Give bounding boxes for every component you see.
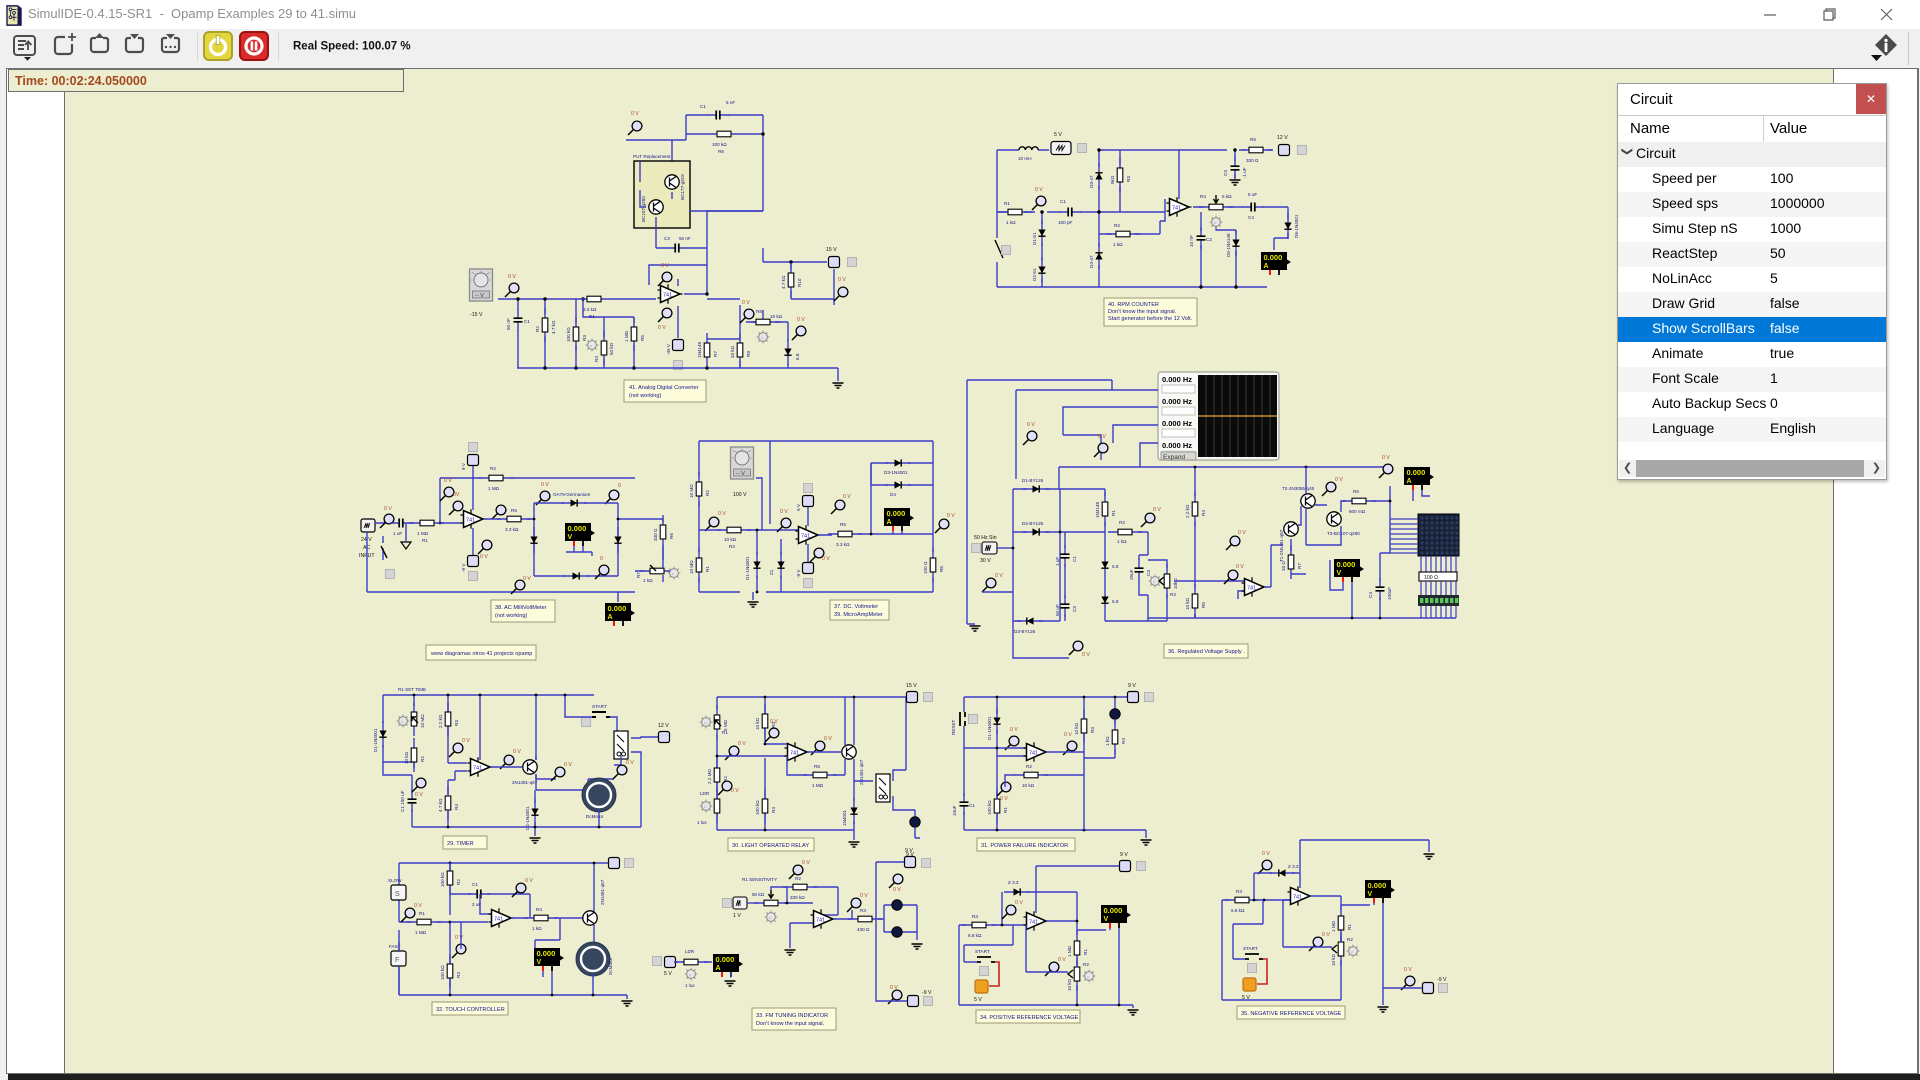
junction [439,522,442,525]
svg-text:10 nF: 10 nF [1189,235,1194,247]
svg-text:R1: R1 [722,730,728,735]
resistor R4 [1192,492,1198,526]
op-amp U1 741 [796,525,821,545]
svg-text:12 V: 12 V [1277,135,1288,141]
wire right section [635,549,670,582]
note box 33 [752,1008,836,1030]
voltmeter display [1101,905,1131,928]
svg-text:39. MicroAmpMeter: 39. MicroAmpMeter [834,612,883,618]
svg-text:0 V: 0 V [1027,422,1035,428]
svg-text:1N4001: 1N4001 [842,809,847,826]
resistor R2 [411,738,417,772]
svg-text:R3: R3 [582,335,587,341]
svg-text:R5: R5 [840,522,846,527]
wire transistor net [1291,467,1346,574]
svg-text:5 V: 5 V [974,997,982,1003]
terminal 15V [907,692,918,703]
svg-text:3.3 kΩ: 3.3 kΩ [583,307,597,312]
svg-text:0 V: 0 V [658,325,666,331]
svg-text:R4: R4 [536,907,542,912]
icon: save as [162,34,179,52]
probe R3 [452,944,466,958]
diode 1N4001 [850,798,857,824]
svg-text:R2: R2 [535,326,540,332]
svg-text:R2: R2 [795,876,801,881]
svg-text:5 V: 5 V [664,971,672,977]
wire output [818,463,933,535]
zener Z5.8 upper [1101,552,1108,578]
svg-text:0 V: 0 V [525,878,533,884]
ground [752,592,754,600]
resistor R2 [542,308,548,342]
wire left loop [997,150,1288,287]
zener Z3.3 [1004,888,1030,895]
junction [1076,920,1079,923]
svg-text:0 V: 0 V [508,274,516,280]
svg-text:1 uF: 1 uF [1055,557,1060,566]
svg-text:T3-BC107-q280: T3-BC107-q280 [1327,531,1360,536]
svg-text:Expand: Expand [1163,454,1185,461]
svg-text:R1: R1 [422,538,428,543]
probe out [1063,741,1077,755]
toolbar [0,29,1920,68]
SLOW touch box [391,885,406,900]
svg-text:S: S [395,891,400,898]
gray square [1078,144,1087,153]
svg-text:100 Ω: 100 Ω [923,561,928,574]
ground C3 [1230,180,1241,185]
junction [996,747,999,750]
capacitor C3 25uF [1135,559,1144,581]
zener Z5.8 lower [1101,587,1108,613]
svg-text:100 kΩ: 100 kΩ [566,327,571,342]
svg-text:R4: R4 [1201,510,1206,516]
svg-text:10 kΩ: 10 kΩ [1022,783,1035,788]
wire outer loop [699,441,933,592]
close button [1871,0,1901,29]
svg-text:3.3 kΩ: 3.3 kΩ [836,542,850,547]
wire emitter [535,774,588,803]
svg-text:50 nF: 50 nF [506,318,511,330]
ground [970,626,981,631]
svg-text:100 kΩ: 100 kΩ [712,142,727,147]
svg-text:1N4148: 1N4148 [697,341,702,358]
bottom bus [1148,614,1456,618]
potentiometer R4 [601,331,607,365]
source 5V red wire [989,962,999,986]
transistor Q2 BC107 [649,200,663,214]
wire bridge rails [967,489,1105,624]
scope screen [1198,375,1277,457]
svg-text:2N1481-q67: 2N1481-q67 [512,780,538,785]
wire output [483,518,534,520]
junction [756,529,759,532]
svg-text:R4: R4 [1200,194,1206,199]
junction [996,696,999,699]
separator [278,33,280,61]
resistor R3 [962,922,996,928]
junction [413,694,416,697]
gray square ghost [674,361,683,370]
note box 34 [976,1010,1080,1023]
junction [1076,1004,1079,1007]
potentiometer R1 [754,900,788,906]
probe left low [982,578,996,592]
svg-text:R5: R5 [640,335,645,341]
svg-text:100 kΩ: 100 kΩ [440,965,445,980]
terminal 12V [1279,145,1290,156]
svg-text:R2: R2 [1347,937,1353,942]
svg-text:T2-2N3055-q45: T2-2N3055-q45 [1282,486,1315,491]
svg-text:0 V: 0 V [541,482,549,488]
svg-text:www diagramas otros 41 project: www diagramas otros 41 projects opamp [430,651,532,657]
svg-text:D4-47: D4-47 [1089,255,1094,268]
terminal 15V [829,257,840,268]
capacitor C2 [1197,227,1206,249]
bottom dark bar [8,1074,1920,1080]
svg-text:R7: R7 [636,572,641,578]
resistor R5 [1239,147,1273,153]
op-amp U1 741 [461,509,486,529]
svg-text:START: START [592,704,607,709]
ground right [912,944,923,949]
terminal -9V [908,996,919,1007]
resistor R1 [994,789,1000,823]
junction [716,755,719,758]
zener Z1 [777,552,784,578]
svg-text:10 kΩ: 10 kΩ [724,537,737,542]
wire bottom [959,1005,1133,1008]
probe R3 [765,728,779,742]
resistor R2 [1014,772,1048,778]
svg-text:430 Ω: 430 Ω [857,927,870,932]
svg-text:100uF: 100uF [1387,587,1392,600]
probe below opamp [810,548,824,562]
resistor R3 [717,527,751,533]
svg-text:5.8: 5.8 [1112,564,1119,569]
wire bridge [534,503,663,576]
op-amp U1 741 [1242,577,1267,597]
svg-text:D1-BY126: D1-BY126 [1022,478,1044,483]
svg-text:R9: R9 [746,351,751,357]
diode D5 [1232,230,1239,256]
diode D1-1N4001 [379,721,386,747]
svg-text:D1-51: D1-51 [1032,232,1037,245]
svg-text:9 V: 9 V [905,848,913,854]
diode D4 [885,481,911,488]
svg-text:50 kΩ: 50 kΩ [609,342,614,355]
svg-text:C2: C2 [664,236,670,241]
LED D1 [892,900,902,910]
wire bottom bus [399,995,627,999]
svg-text:0 V: 0 V [1058,957,1066,963]
probe mid1 [1226,536,1240,550]
wire out [1310,896,1370,910]
wire bottom [1222,999,1341,1001]
switch [995,240,1003,258]
svg-text:1 lux: 1 lux [685,983,695,988]
probe 0V [1032,196,1046,210]
svg-text:6.8 kΩ: 6.8 kΩ [968,933,982,938]
ground opamp [790,923,813,948]
junction [996,829,999,832]
svg-text:5 nF: 5 nF [726,100,735,105]
svg-text:0 V: 0 V [1236,564,1244,570]
svg-text:0 V: 0 V [843,494,851,500]
voltmeter display [1365,880,1395,903]
probe motor [613,765,627,779]
svg-text:Don't know the input signal.: Don't know the input signal. [1108,309,1177,315]
ammeter display [1261,252,1291,275]
zener Z3.3 [1269,869,1295,876]
svg-text:0 V: 0 V [462,738,470,744]
svg-text:0 V: 0 V [860,893,868,899]
svg-text:D2-51: D2-51 [1032,268,1037,281]
capacitor C3 [1231,157,1240,179]
svg-text:1N4148: 1N4148 [1095,501,1100,518]
junction [1389,500,1392,503]
junction [1194,466,1197,469]
wire bottom bus [717,829,854,831]
probe lower [718,781,732,795]
probe opamp minus [449,501,463,515]
diode D1-1N4001 [993,708,1000,734]
diode D1-BY126 [1023,485,1049,492]
svg-text:0 V: 0 V [414,903,422,909]
probe mid [705,517,719,531]
svg-text:34. POSITIVE REFERENCE VOLTAGE: 34. POSITIVE REFERENCE VOLTAGE [980,1015,1079,1021]
svg-text:R1: R1 [1083,949,1088,955]
svg-text:0 V: 0 V [455,935,463,941]
resistor pack 100 ohm [1419,572,1457,581]
circuits will be appended here [359,100,1459,1030]
Circuit properties dialog [1617,83,1887,480]
svg-text:33 Ω: 33 Ω [1281,561,1286,571]
svg-text:R7: R7 [713,351,718,357]
svg-text:C3: C3 [1223,170,1228,176]
probe output [492,505,506,519]
svg-text:5.8: 5.8 [1112,599,1119,604]
svg-text:-9 V: -9 V [1437,977,1447,983]
probe top [889,874,903,888]
svg-text:C4: C4 [1368,592,1373,598]
START button [592,712,610,717]
ground [1128,1010,1139,1015]
potentiometer R4 [1199,204,1233,210]
ground triangle [401,542,411,549]
resistor R3 [447,954,453,988]
svg-text:4.7 kΩ: 4.7 kΩ [781,275,786,289]
svg-text:-9 V: -9 V [796,569,801,578]
svg-text:R3: R3 [456,972,461,978]
svg-text:R5: R5 [1201,602,1206,608]
svg-text:0 V: 0 V [1000,796,1008,802]
wire main rail [498,299,656,368]
ground [622,1001,633,1006]
svg-text:1 kΩ: 1 kΩ [1117,539,1127,544]
svg-text:31. POWER FAILURE INDICATOR: 31. POWER FAILURE INDICATOR [981,843,1068,849]
capacitor C4 [1242,203,1264,212]
svg-text:0 V: 0 V [1082,652,1090,658]
zener Z-6.8 [784,339,791,365]
svg-text:START: START [1243,946,1258,951]
resistor R1 mid [1102,492,1108,526]
battery -15V [673,340,684,351]
probe rail [725,746,739,760]
svg-text:0 V: 0 V [1010,727,1018,733]
resistor R2 left [696,472,702,506]
wire net top loop [626,115,763,211]
capacitor C1 [408,790,417,812]
svg-text:R1: R1 [419,911,425,916]
icon: open circuit [91,33,108,52]
wire to right rail [1372,486,1390,553]
svg-text:Z 3.3: Z 3.3 [1288,864,1299,869]
svg-text:(not working): (not working) [629,393,661,399]
resistor R2 [714,758,720,792]
junction [1253,899,1256,902]
svg-text:D1-1N4001: D1-1N4001 [987,716,992,740]
wire out [511,918,583,948]
ammeter display [605,603,635,626]
resistor R3 [573,317,579,351]
AC source [361,519,375,532]
svg-text:10 MΩ: 10 MΩ [689,484,694,498]
svg-text:12 V: 12 V [658,723,669,729]
switch [381,546,387,558]
resistor R9 [737,333,743,367]
svg-text:0 V: 0 V [718,511,726,517]
wire bottom bus [412,826,641,828]
op-amp U1 741 [489,908,514,928]
probe top right [1379,464,1393,478]
capacitor C1 [1059,208,1081,217]
LED bar [1421,581,1456,595]
junction [449,862,452,865]
svg-text:0 V: 0 V [1015,900,1023,906]
resistor R3 [1081,709,1087,743]
START button [977,957,995,962]
resistor R2 [1108,529,1142,535]
potentiometer R8 [746,319,780,325]
app logo [5,5,23,26]
svg-text:0: 0 [600,556,603,562]
note box 35 [1237,1006,1345,1019]
LED matrix [1418,514,1459,556]
probe zener [1002,905,1016,919]
wire mid rail [699,530,798,592]
svg-text:R1: R1 [1347,924,1352,930]
probe main in [505,283,519,297]
svg-text:1 uF: 1 uF [393,531,402,536]
svg-text:R1: R1 [1111,510,1116,516]
junction [516,297,519,300]
probe T2 [1322,482,1336,496]
svg-text:1 MΩ: 1 MΩ [624,330,629,342]
svg-text:D2-BY126: D2-BY126 [1022,521,1044,526]
svg-text:C3: C3 [1072,606,1077,612]
svg-text:R4: R4 [454,804,459,810]
gray square [1298,146,1307,155]
svg-text:D3-47: D3-47 [1089,175,1094,188]
wire top bus [383,695,594,768]
wire top bus [399,863,608,995]
op-amp U1 741 [811,909,836,929]
svg-text:100 kΩ: 100 kΩ [755,800,760,815]
svg-text:BC107-g280: BC107-g280 [641,196,646,222]
svg-text:C1: C1 [524,319,530,324]
ground [530,838,541,843]
potentiometer R1 [411,702,417,736]
wire op-amp out [678,279,707,338]
junction [1059,531,1062,534]
svg-text:0 V: 0 V [513,749,521,755]
svg-text:2.2 kΩ: 2.2 kΩ [1185,504,1190,518]
svg-text:600 mΩ: 600 mΩ [1349,509,1366,514]
svg-text:-15 V: -15 V [470,312,483,318]
svg-text:0 V: 0 V [824,736,832,742]
svg-text:0 V: 0 V [838,277,846,283]
resistor R7 [704,333,710,367]
junction [1351,617,1354,620]
svg-text:3.3 kΩ: 3.3 kΩ [505,527,519,532]
title bar [0,0,1920,29]
ground ammeter [725,981,736,986]
wire rails [717,744,789,756]
svg-text:0 V: 0 V [1098,434,1106,440]
svg-text:38. AC MilliVoltMeter: 38. AC MilliVoltMeter [495,605,547,611]
wire PUT internals [640,161,672,248]
svg-text:0 V: 0 V [1262,851,1270,857]
ground [833,383,844,388]
junction [764,829,767,832]
rails mid right [1059,467,1390,618]
diode D3-BY126 [1017,617,1043,624]
svg-text:0 V: 0 V [626,760,634,766]
svg-text:-9 V: -9 V [922,990,932,996]
svg-text:PUT Replacement: PUT Replacement [633,154,671,159]
potentiometer R2 [1338,932,1344,966]
svg-text:9 V: 9 V [1128,683,1136,689]
potentiometer R7 [640,568,674,574]
junction [786,902,789,905]
svg-text:40. RPM COUNTER: 40. RPM COUNTER [1108,302,1159,308]
battery 9V [468,455,479,466]
svg-text:Z1: Z1 [769,569,774,575]
svg-text:15 V: 15 V [826,247,837,253]
svg-text:.1 uF: .1 uF [1242,167,1247,178]
svg-text:C1: C1 [1072,556,1077,562]
svg-text:100 kΩ: 100 kΩ [987,800,992,815]
ammeter display [1404,467,1434,490]
frequency meter panel [1158,372,1279,460]
source 5V orange [1243,978,1256,991]
ground bottom [1378,1007,1389,1012]
battery -9V [468,556,479,567]
svg-text:C1: C1 [700,104,706,109]
probe opamp out [500,755,514,769]
probe C [997,782,1011,796]
svg-text:R1: R1 [1004,201,1010,206]
potentiometer R1 [714,705,720,739]
diode D1-51 [1038,220,1045,246]
probe wiper [1045,962,1059,976]
LED D2 [1110,709,1120,719]
svg-text:DcMotor: DcMotor [586,814,604,819]
svg-text:R2: R2 [1114,223,1120,228]
power button (on) [204,32,232,60]
wire out [1005,752,1115,787]
